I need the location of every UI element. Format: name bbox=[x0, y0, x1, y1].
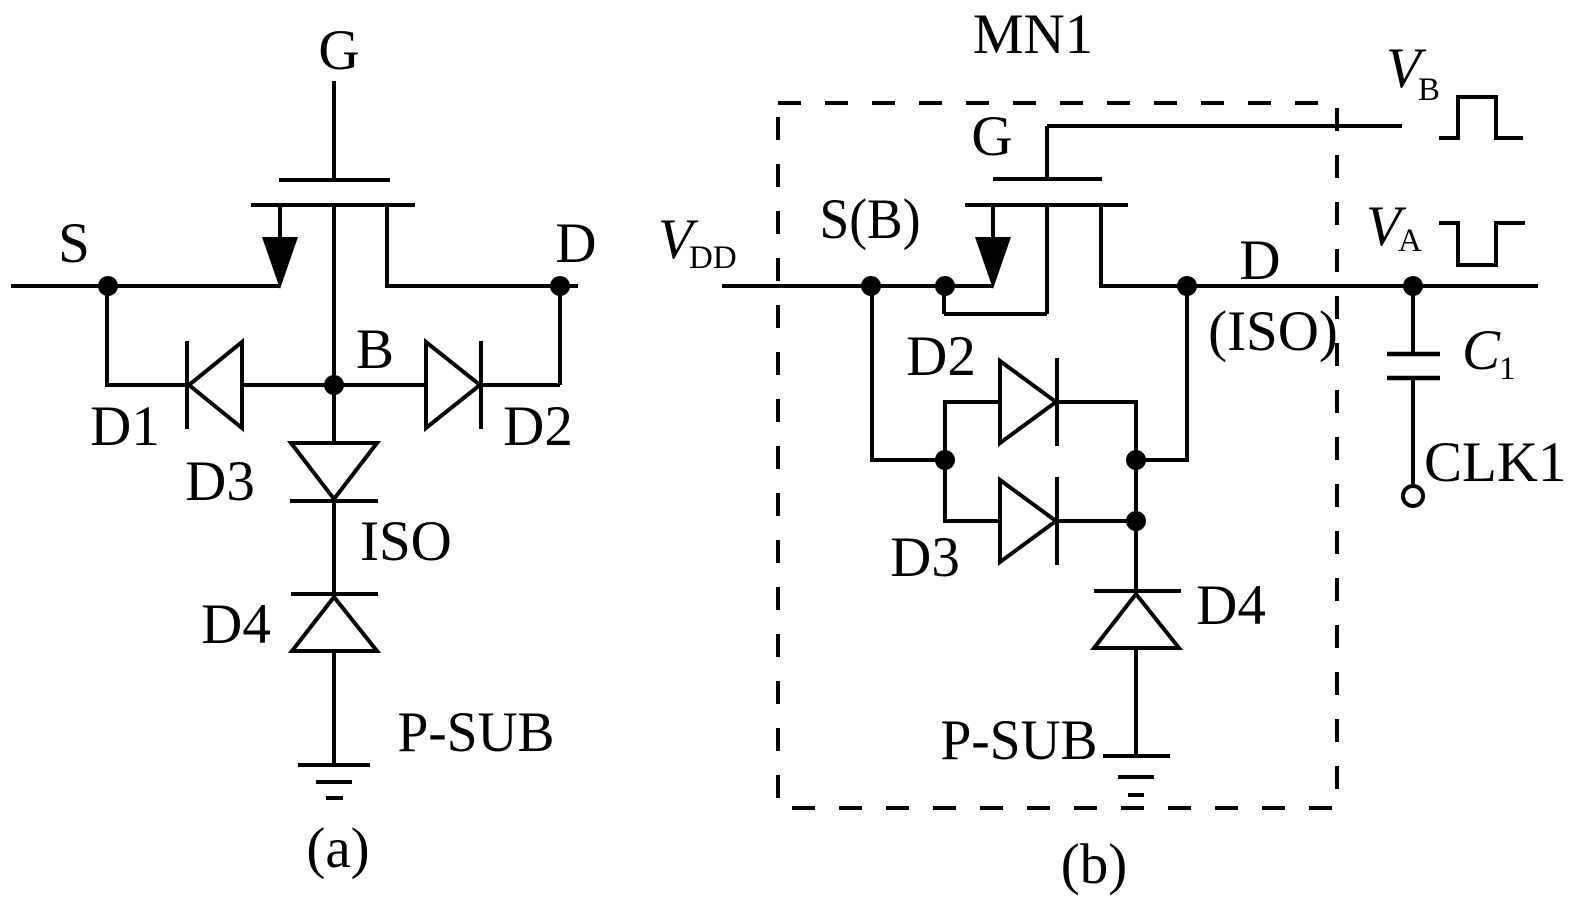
svg-text:1: 1 bbox=[1499, 351, 1516, 387]
capacitor C1 bottom plate bbox=[1387, 376, 1440, 381]
wire gate to VB (b) bbox=[1047, 124, 1402, 128]
svg-text:S: S bbox=[58, 212, 90, 275]
diode D4 cathode bar (b) bbox=[1094, 589, 1181, 593]
svg-text:DD: DD bbox=[689, 240, 737, 276]
svg-text:D3: D3 bbox=[890, 526, 960, 589]
svg-text:B: B bbox=[356, 318, 394, 381]
wire gate lead (a) bbox=[332, 81, 336, 182]
svg-text:D: D bbox=[1239, 229, 1280, 292]
diode D3 cathode bar (b) bbox=[1055, 477, 1059, 565]
svg-text:B: B bbox=[1418, 72, 1440, 108]
svg-text:D1: D1 bbox=[90, 395, 160, 458]
wire S to D1 (a) bbox=[105, 383, 187, 387]
svg-text:D4: D4 bbox=[201, 593, 271, 656]
svg-text:P-SUB: P-SUB bbox=[941, 709, 1098, 772]
wire D2 to D node (a) bbox=[481, 383, 560, 387]
diode D2 triangle (b) bbox=[1000, 361, 1056, 443]
svg-text:D2: D2 bbox=[906, 325, 976, 388]
wire D down stub (b) bbox=[1185, 286, 1189, 462]
node B junction dot (a) bbox=[324, 375, 344, 395]
transistor MN1 source stub bbox=[991, 205, 995, 243]
wire D2 anode (b) bbox=[945, 400, 1000, 404]
diode D2 triangle bbox=[426, 342, 480, 428]
node left ring junction dot (b) bbox=[935, 450, 955, 470]
wire D1 to B (a) bbox=[242, 383, 426, 387]
wire C1 to CLK1 terminal bbox=[1411, 380, 1415, 484]
CLK1 terminal circle bbox=[1403, 486, 1423, 506]
wire D to VA (b) bbox=[1101, 284, 1538, 288]
transistor (a) source stub bbox=[278, 205, 282, 243]
svg-text:(ISO): (ISO) bbox=[1208, 300, 1338, 363]
svg-text:D2: D2 bbox=[503, 395, 573, 458]
svg-text:(a): (a) bbox=[306, 817, 369, 880]
wire D3 anode (b) bbox=[945, 519, 1000, 523]
diode D3 triangle bbox=[291, 443, 377, 499]
svg-text:C: C bbox=[1462, 319, 1501, 382]
svg-text:MN1: MN1 bbox=[973, 3, 1093, 66]
capacitor C1 top plate bbox=[1387, 352, 1440, 357]
diode D2 cathode bar (b) bbox=[1055, 358, 1059, 446]
svg-text:CLK1: CLK1 bbox=[1424, 431, 1567, 494]
wire S down stub (b) bbox=[870, 286, 874, 462]
diode D1 cathode bar bbox=[185, 341, 189, 429]
diode D1 triangle bbox=[189, 342, 242, 428]
wire B to ISO (a) bbox=[332, 501, 336, 596]
wire S to left ring node (b) bbox=[870, 458, 945, 462]
wire D4 to ground (b) bbox=[1134, 648, 1138, 758]
node S junction dot (a) bbox=[98, 276, 118, 296]
diode D2 cathode bar bbox=[479, 341, 483, 429]
wire D2 cathode (b) bbox=[1057, 400, 1136, 404]
diode D3 cathode bar bbox=[290, 499, 378, 503]
node S junction dot 2 (b) bbox=[935, 276, 955, 296]
wire D (a) bbox=[387, 284, 578, 288]
transistor MN1 gate bar bbox=[993, 177, 1102, 181]
VA pulse waveform bbox=[1439, 223, 1525, 265]
wire VDD (b) bbox=[722, 284, 993, 288]
node D junction dot (b) bbox=[1177, 276, 1197, 296]
wire gate lead (b) bbox=[1045, 126, 1049, 181]
node D junction dot (a) bbox=[550, 276, 570, 296]
wire body horizontal (b) bbox=[944, 312, 1047, 316]
node right ring junction dot (b) bbox=[1126, 450, 1146, 470]
transistor (a) gate bar bbox=[279, 178, 390, 182]
wire ISO to ground (a) bbox=[332, 651, 336, 765]
transistor MN1 channel bar bbox=[965, 203, 1128, 207]
svg-text:D: D bbox=[555, 212, 596, 275]
wire S down stub (a) bbox=[105, 286, 109, 387]
svg-text:G: G bbox=[318, 19, 359, 82]
wire left ring vertical (b) bbox=[943, 400, 947, 523]
node S junction dot 1 (b) bbox=[861, 276, 881, 296]
diode D3 triangle (b) bbox=[1000, 480, 1056, 562]
diode D4 triangle bbox=[292, 597, 377, 651]
diode D4 triangle (b) bbox=[1094, 594, 1179, 648]
svg-text:G: G bbox=[971, 105, 1012, 168]
wire body up to S (b) bbox=[942, 284, 946, 314]
transistor (a) drain stub bbox=[385, 205, 389, 288]
transistor MN1 source arrow bbox=[975, 237, 1011, 289]
node VA junction dot (b) bbox=[1403, 276, 1423, 296]
ground symbol (a) bbox=[298, 763, 370, 767]
svg-text:P-SUB: P-SUB bbox=[398, 701, 555, 764]
wire body vertical (a) bbox=[332, 205, 336, 443]
svg-text:D4: D4 bbox=[1196, 574, 1266, 637]
transistor MN1 body lead bbox=[1045, 205, 1049, 314]
svg-text:ISO: ISO bbox=[360, 510, 452, 573]
svg-text:D3: D3 bbox=[185, 450, 255, 513]
VB pulse waveform bbox=[1439, 97, 1523, 138]
wire D3 cathode (b) bbox=[1057, 519, 1136, 523]
transistor (a) source arrow bbox=[262, 237, 298, 289]
wire D down stub (a) bbox=[558, 286, 562, 385]
svg-text:A: A bbox=[1398, 223, 1422, 259]
node D3 cathode junction dot (b) bbox=[1126, 511, 1146, 531]
transistor (a) channel bar bbox=[251, 203, 415, 207]
transistor MN1 drain stub bbox=[1099, 205, 1103, 288]
svg-text:S(B): S(B) bbox=[820, 188, 921, 251]
wire right ring to D (b) bbox=[1136, 458, 1187, 462]
wire S (a) bbox=[11, 284, 280, 288]
ground symbol (b) bbox=[1103, 754, 1170, 758]
MN1 dashed boundary box bbox=[778, 103, 1337, 808]
svg-text:(b): (b) bbox=[1061, 833, 1127, 896]
wire VA to C1 (b) bbox=[1411, 286, 1415, 352]
wire right ring vertical (b) bbox=[1134, 400, 1138, 593]
diode D4 cathode bar bbox=[291, 592, 378, 596]
